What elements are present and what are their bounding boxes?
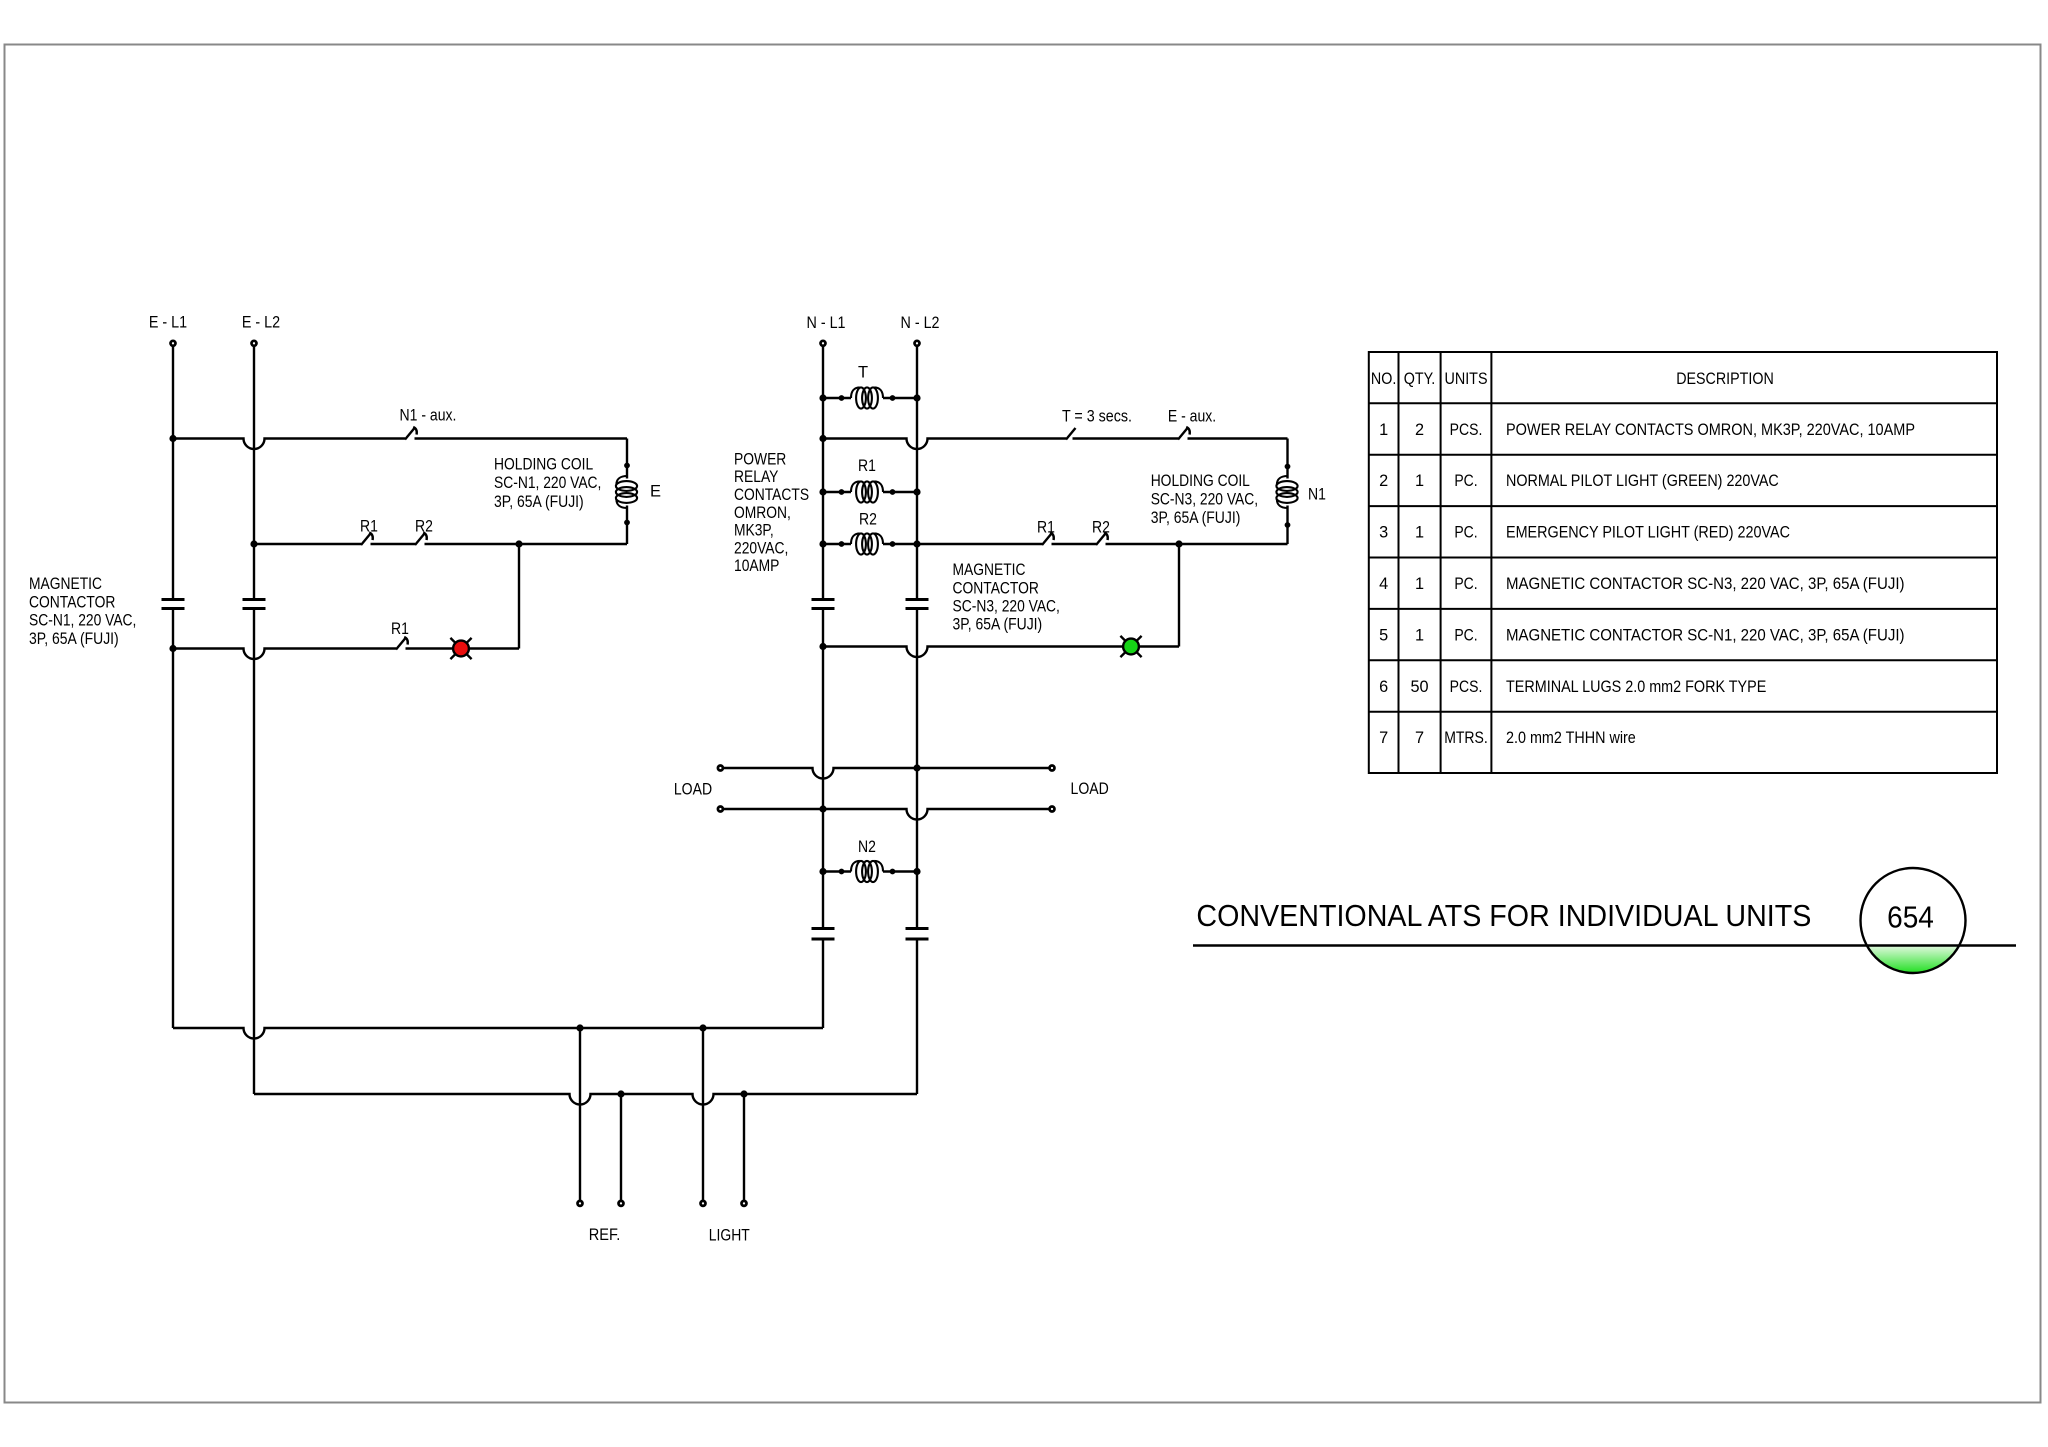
svg-text:MAGNETIC: MAGNETIC [29, 575, 102, 593]
svg-text:CONVENTIONAL ATS FOR INDIVIDUA: CONVENTIONAL ATS FOR INDIVIDUAL UNITS [1196, 898, 1811, 933]
wire REF stub B [620, 1094, 622, 1201]
svg-text:CONTACTOR: CONTACTOR [29, 593, 115, 611]
wire v519 up [518, 544, 520, 649]
svg-text:REF.: REF. [589, 1226, 621, 1244]
svg-text:E - L2: E - L2 [242, 314, 280, 332]
label holding coil SC-N1 description [494, 456, 601, 511]
wire red lamp rung [173, 649, 519, 660]
wire bottom bus 1 [173, 1028, 823, 1039]
svg-text:PC.: PC. [1454, 626, 1477, 644]
terminal N-L2 [915, 341, 920, 346]
svg-text:R2: R2 [1092, 519, 1110, 537]
svg-text:PCS.: PCS. [1450, 421, 1483, 439]
table row 6 [1379, 678, 1766, 696]
svg-text:N2: N2 [858, 838, 876, 856]
page number circle [1861, 868, 1966, 973]
junction bus2 x LIGHT stub B [740, 1090, 747, 1097]
svg-text:OMRON,: OMRON, [734, 504, 791, 522]
svg-text:N1 - aux.: N1 - aux. [400, 407, 457, 425]
junction bus1 x REF stub [576, 1024, 583, 1031]
red pilot lamp (emergency) [450, 638, 471, 659]
svg-text:MTRS.: MTRS. [1444, 729, 1488, 747]
svg-text:HOLDING COIL: HOLDING COIL [1151, 472, 1250, 490]
terminal REF A [578, 1201, 583, 1206]
svg-text:LIGHT: LIGHT [709, 1226, 750, 1244]
wire LOAD line 2 [723, 809, 1049, 820]
svg-text:PC.: PC. [1454, 472, 1477, 490]
magnetic contactor lower main contact N-L1 [812, 929, 835, 940]
junction R2 rung x N-L2 [913, 540, 920, 547]
junction coil E bottom pin [624, 520, 630, 526]
svg-text:POWER RELAY CONTACTS OMRON, MK: POWER RELAY CONTACTS OMRON, MK3P, 220VAC… [1506, 421, 1915, 439]
timer coil T [851, 387, 883, 408]
svg-text:7: 7 [1415, 729, 1424, 747]
coil T pin left [839, 395, 845, 401]
svg-text:POWER: POWER [734, 450, 786, 468]
magnetic contactor SC-N1 main contact E-L2 [243, 600, 266, 609]
wire E-L2 vertical [253, 346, 255, 1094]
junction N-L1 x rung 438 [819, 435, 826, 442]
wire rung T=3secs E-aux to coil N1 [823, 439, 1288, 450]
svg-text:N - L2: N - L2 [901, 314, 940, 332]
svg-text:R2: R2 [859, 510, 877, 528]
wire LOAD line 1 [723, 768, 1049, 779]
junction T rung x N-L1 [819, 394, 826, 401]
table row 1 [1379, 421, 1915, 439]
relay coil R2 [851, 533, 883, 554]
junction R1 rung x N-L1 [819, 488, 826, 495]
terminal LOAD1 right [1050, 766, 1055, 771]
junction rung544 x v1179 [1175, 540, 1182, 547]
svg-text:3P, 65A (FUJI): 3P, 65A (FUJI) [1151, 509, 1241, 527]
svg-text:PC.: PC. [1454, 524, 1477, 542]
neutral coil N2 [851, 861, 883, 882]
magnetic contactor SC-N1 main contact E-L1 [162, 600, 185, 609]
wire LIGHT stub A [702, 1028, 704, 1201]
svg-text:R1: R1 [391, 620, 409, 638]
svg-text:220VAC,: 220VAC, [734, 539, 788, 557]
wire REF stub A [579, 1028, 581, 1201]
svg-text:NORMAL PILOT LIGHT (GREEN) 220: NORMAL PILOT LIGHT (GREEN) 220VAC [1506, 472, 1779, 490]
wire N-L2 vertical [916, 346, 918, 1094]
svg-text:3P, 65A (FUJI): 3P, 65A (FUJI) [953, 616, 1043, 634]
svg-text:MAGNETIC: MAGNETIC [953, 561, 1026, 579]
svg-text:NO.: NO. [1371, 370, 1396, 388]
coil R1 pin left [839, 489, 845, 495]
svg-text:T: T [858, 363, 868, 381]
junction R1 rung x N-L2 [913, 488, 920, 495]
svg-text:N1: N1 [1308, 485, 1326, 503]
contact R2 (E hold) [415, 533, 427, 546]
wire relay coil R2 rung + contacts to coil N1 [823, 543, 1288, 545]
junction coil N1 top pin [1285, 464, 1291, 470]
junction LOAD2 x N-L1 [819, 805, 826, 812]
svg-text:6: 6 [1379, 678, 1388, 696]
bill of materials table grid [1369, 352, 1997, 773]
svg-text:7: 7 [1379, 729, 1388, 747]
wire neutral coil N2 rung [823, 870, 917, 872]
coil T pin right [890, 395, 896, 401]
svg-text:LOAD: LOAD [1071, 780, 1109, 798]
junction coil E top pin [624, 463, 630, 469]
junction N2 rung x N-L1 [819, 868, 826, 875]
junction bus1 x LIGHT stub [699, 1024, 706, 1031]
contact R1 (red lamp) [396, 637, 408, 650]
magnetic contactor SC-N3 main contact N-L1 [812, 600, 835, 609]
svg-text:SC-N1, 220 VAC,: SC-N1, 220 VAC, [29, 612, 136, 630]
terminal LIGHT A [701, 1201, 706, 1206]
svg-text:2.0 mm2 THHN wire: 2.0 mm2 THHN wire [1506, 729, 1636, 747]
table row 2 [1379, 472, 1779, 490]
magnetic contactor lower main contact N-L2 [906, 929, 929, 940]
svg-text:T = 3 secs.: T = 3 secs. [1062, 408, 1132, 426]
svg-text:SC-N1, 220 VAC,: SC-N1, 220 VAC, [494, 474, 601, 492]
svg-text:UNITS: UNITS [1445, 370, 1488, 388]
svg-text:DESCRIPTION: DESCRIPTION [1676, 370, 1774, 388]
holding coil E [616, 476, 637, 508]
svg-text:PCS.: PCS. [1450, 678, 1483, 696]
svg-text:TERMINAL LUGS 2.0 mm2 FORK TYP: TERMINAL LUGS 2.0 mm2 FORK TYPE [1506, 678, 1766, 696]
wire rung N1-aux to holding coil E [173, 439, 627, 450]
coil R2 pin left [839, 541, 845, 547]
table row 5 [1379, 626, 1904, 644]
contact R2 (N hold) [1096, 533, 1108, 546]
wire v1179 up [1178, 544, 1180, 647]
terminal REF B [619, 1201, 624, 1206]
svg-text:N - L1: N - L1 [807, 314, 846, 332]
svg-text:1: 1 [1415, 626, 1424, 644]
junction E-L2 x rung 544 [250, 540, 257, 547]
svg-text:MAGNETIC CONTACTOR SC-N3, 220: MAGNETIC CONTACTOR SC-N3, 220 VAC, 3P, 6… [1506, 575, 1905, 593]
wire timer coil T rung [823, 397, 917, 399]
svg-text:E - L1: E - L1 [149, 314, 187, 332]
svg-text:5: 5 [1379, 626, 1388, 644]
label power relay contacts description [734, 450, 809, 575]
wire N-L1 vertical [822, 346, 824, 1028]
wire E-L1 vertical [172, 346, 174, 1028]
junction E-L1 x lamp rung [169, 645, 176, 652]
terminal N-L1 [821, 341, 826, 346]
holding coil N1 [1276, 476, 1297, 508]
svg-text:654: 654 [1887, 900, 1934, 935]
terminal LIGHT B [742, 1201, 747, 1206]
svg-text:3P, 65A (FUJI): 3P, 65A (FUJI) [494, 493, 584, 511]
contact T=3secs [1066, 428, 1076, 440]
svg-text:2: 2 [1379, 472, 1388, 490]
svg-text:MAGNETIC CONTACTOR SC-N1, 220: MAGNETIC CONTACTOR SC-N1, 220 VAC, 3P, 6… [1506, 626, 1905, 644]
junction N-L1 x lamp rung [819, 643, 826, 650]
relay coil R1 [851, 481, 883, 502]
svg-text:PC.: PC. [1454, 575, 1477, 593]
svg-text:E - aux.: E - aux. [1168, 408, 1216, 426]
svg-text:R1: R1 [1037, 519, 1055, 537]
svg-text:R1: R1 [858, 457, 876, 475]
terminal LOAD2 right [1050, 807, 1055, 812]
wire holding coil E right vertical [626, 439, 628, 545]
svg-text:1: 1 [1415, 575, 1424, 593]
table row 3 [1379, 524, 1790, 542]
svg-text:E: E [650, 482, 661, 500]
svg-text:1: 1 [1379, 421, 1388, 439]
magnetic contactor SC-N3 main contact N-L2 [906, 600, 929, 609]
coil N2 pin right [890, 869, 896, 875]
svg-text:CONTACTOR: CONTACTOR [953, 579, 1039, 597]
svg-text:3P, 65A (FUJI): 3P, 65A (FUJI) [29, 630, 119, 648]
junction bus2 x REF stub B [617, 1090, 624, 1097]
coil N2 pin left [839, 869, 845, 875]
wire LIGHT stub B [743, 1094, 745, 1201]
svg-text:CONTACTS: CONTACTS [734, 486, 809, 504]
svg-text:1: 1 [1415, 524, 1424, 542]
junction N2 rung x N-L2 [913, 868, 920, 875]
label magnetic contactor SC-N3 description [953, 561, 1060, 634]
terminal E-L1 [171, 341, 176, 346]
svg-text:SC-N3, 220 VAC,: SC-N3, 220 VAC, [953, 598, 1060, 616]
svg-text:R1: R1 [360, 518, 378, 536]
table row 4 [1379, 575, 1904, 593]
svg-text:1: 1 [1415, 472, 1424, 490]
junction LOAD1 x N-L2 [913, 764, 920, 771]
svg-text:SC-N3, 220 VAC,: SC-N3, 220 VAC, [1151, 491, 1258, 509]
wire green lamp rung [823, 647, 1179, 658]
wire bottom bus 2 [254, 1094, 917, 1105]
contact R1 (E hold) [361, 533, 373, 546]
table header row [1371, 370, 1774, 388]
svg-text:2: 2 [1415, 421, 1424, 439]
junction rung544 x v519 [515, 540, 522, 547]
svg-text:3: 3 [1379, 524, 1388, 542]
label holding coil SC-N3 description [1151, 472, 1258, 527]
coil R1 pin right [890, 489, 896, 495]
coil R2 pin right [890, 541, 896, 547]
svg-text:50: 50 [1410, 678, 1428, 696]
green pilot lamp (normal) [1120, 636, 1141, 657]
junction coil N1 bottom pin [1285, 522, 1291, 528]
svg-text:LOAD: LOAD [674, 781, 712, 799]
contact R1 (N hold) [1042, 533, 1054, 546]
wire relay coil R1 rung [823, 491, 917, 493]
contact N1-aux [405, 427, 417, 440]
wire rung R1 R2 to coil E [254, 543, 627, 545]
wire holding coil N1 right vertical [1286, 439, 1288, 545]
svg-text:4: 4 [1379, 575, 1388, 593]
junction T rung x N-L2 [913, 394, 920, 401]
terminal LOAD2 left [718, 807, 723, 812]
table row 7 [1379, 729, 1636, 747]
terminal LOAD1 left [718, 766, 723, 771]
svg-text:QTY.: QTY. [1404, 370, 1436, 388]
svg-text:RELAY: RELAY [734, 468, 779, 486]
title underline [1193, 944, 2016, 946]
junction R2 rung x N-L1 [819, 540, 826, 547]
page number circle green segment [1867, 946, 1959, 974]
junction E-L1 x rung 438 [169, 435, 176, 442]
contact E-aux [1178, 427, 1190, 440]
terminal E-L2 [252, 341, 257, 346]
svg-text:HOLDING COIL: HOLDING COIL [494, 456, 593, 474]
svg-text:MK3P,: MK3P, [734, 522, 774, 540]
svg-text:EMERGENCY PILOT LIGHT (RED) 22: EMERGENCY PILOT LIGHT (RED) 220VAC [1506, 524, 1790, 542]
svg-text:10AMP: 10AMP [734, 557, 779, 575]
svg-text:R2: R2 [415, 518, 433, 536]
label magnetic contactor SC-N1 description [29, 575, 136, 648]
